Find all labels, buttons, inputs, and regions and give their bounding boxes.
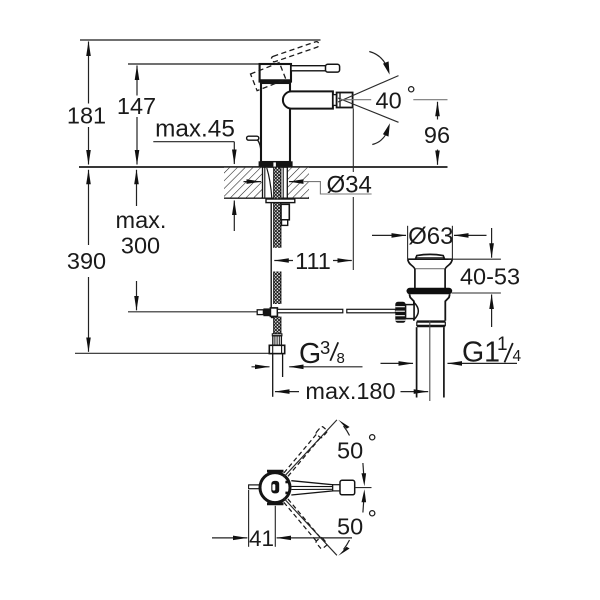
svg-text:41: 41 [249, 526, 274, 551]
drain body bottom flange band [417, 320, 446, 322]
spray angle lines 40 deg [338, 76, 399, 102]
dimension 41 [248, 490, 250, 547]
dashed lever at +50deg [283, 426, 328, 477]
faucet base plate [259, 161, 293, 166]
svg-text:96: 96 [424, 122, 450, 148]
svg-text:40: 40 [376, 88, 402, 114]
faucet body [261, 83, 290, 162]
G3/8 nipple pipe [272, 354, 274, 397]
svg-text:G1: G1 [462, 336, 500, 368]
cartridge boss (black rounded rect) [271, 481, 279, 494]
svg-text:181: 181 [67, 103, 106, 129]
hose end collar [272, 334, 282, 336]
aerator neck [333, 95, 337, 106]
dimension diameter 34 [244, 181, 262, 183]
faucet top view circle [260, 473, 290, 503]
svg-text:390: 390 [67, 248, 106, 274]
spray angle arc arrows [369, 52, 386, 65]
svg-text:°: ° [407, 81, 416, 107]
svg-text:8: 8 [337, 350, 345, 367]
50 deg swing ray lower [284, 498, 337, 555]
node deck cross-section hatched block [224, 168, 263, 198]
drain neck [414, 269, 416, 288]
dimension max.180 [275, 391, 299, 393]
pop-up rod curve inside shank [267, 168, 272, 198]
pop-up rod stub (top view) [249, 484, 261, 486]
faucet cap (cartridge housing) [260, 64, 291, 81]
wire max.300 bottom datum line (pop-up rod level) [128, 311, 258, 313]
drain knob stem [406, 305, 414, 319]
svg-text:°: ° [368, 506, 377, 532]
dimension G1 1/4 arrows [381, 362, 414, 364]
dimension G3/8 arrows [252, 366, 270, 368]
flexible hose braided (lower segment) [273, 317, 281, 335]
lever grip (top view) [340, 480, 355, 495]
svg-text:max.180: max.180 [305, 378, 395, 404]
dimension max.300 vertical [136, 170, 138, 206]
drain tailpipe G1 1/4 [416, 327, 418, 397]
svg-text:Ø63: Ø63 [408, 223, 453, 250]
pop-up rod knob on faucet left [247, 136, 259, 140]
50 deg upper arc arrows [344, 426, 350, 436]
svg-text:40-53: 40-53 [460, 264, 520, 290]
lever mount ticks on circle [285, 481, 288, 484]
pop-up rod vertical [270, 199, 272, 308]
dashed lever at -50deg [283, 498, 328, 549]
horizontal actuating rod [277, 309, 342, 313]
spout [283, 91, 333, 108]
svg-text:111: 111 [295, 248, 331, 274]
svg-text:300: 300 [121, 233, 160, 259]
svg-text:3: 3 [320, 337, 330, 358]
svg-text:147: 147 [117, 93, 156, 119]
svg-text:max.45: max.45 [155, 116, 235, 143]
dimension 40-53 [448, 258, 501, 260]
lever shaft (top view) [291, 481, 332, 495]
dimension diameter 63 [407, 226, 409, 259]
drain centerline extension [429, 321, 431, 401]
svg-text:1: 1 [497, 334, 508, 355]
lever centerline stub [355, 487, 372, 489]
svg-text:°: ° [368, 430, 377, 456]
svg-text:max.: max. [116, 207, 167, 233]
aerator / mousseur [337, 93, 353, 108]
svg-text:4: 4 [513, 348, 522, 365]
flexible hose braided (upper segment through deck) [273, 168, 281, 248]
wire 390 bottom datum line [75, 352, 270, 354]
svg-text:50: 50 [337, 514, 363, 540]
dimension 96 vertical [437, 102, 439, 120]
wire reference line (147 upper datum) [128, 63, 291, 65]
hose hex nut G3/8 [269, 345, 284, 353]
dimension 147 vertical [136, 66, 138, 96]
mounting washer under deck [266, 199, 295, 203]
pop-up waste drain: dome plug [415, 254, 444, 259]
svg-text:50: 50 [337, 438, 363, 464]
hose thread section [273, 336, 282, 346]
wire reference line top (181 upper datum) [80, 39, 321, 41]
50 deg lower arc arrows [344, 540, 350, 550]
mounting nut [281, 204, 289, 220]
lever handle horizontal [291, 66, 326, 71]
dimension 390 vertical [88, 170, 90, 245]
flexible hose braided (middle segment) [273, 272, 281, 305]
drain ball-socket bulge [414, 302, 418, 319]
lever connector (top view) [333, 485, 340, 491]
dimension 111 [352, 109, 354, 173]
wire deck bottom line [224, 197, 309, 199]
dimension 181 vertical [88, 42, 90, 104]
svg-text:G: G [299, 338, 321, 370]
drain rubber gasket (black) [407, 288, 453, 294]
shank hole walls in deck [262, 167, 264, 199]
drain body [409, 294, 414, 321]
pop-up rod clamp junction [257, 310, 263, 315]
drain knurled adjuster knob [395, 302, 405, 323]
lever handle raised position (dashed) [251, 41, 320, 91]
svg-text:Ø34: Ø34 [327, 172, 372, 199]
node deck top surface line [79, 166, 448, 168]
50 deg swing ray upper [284, 420, 337, 477]
drain flange top [408, 258, 453, 260]
